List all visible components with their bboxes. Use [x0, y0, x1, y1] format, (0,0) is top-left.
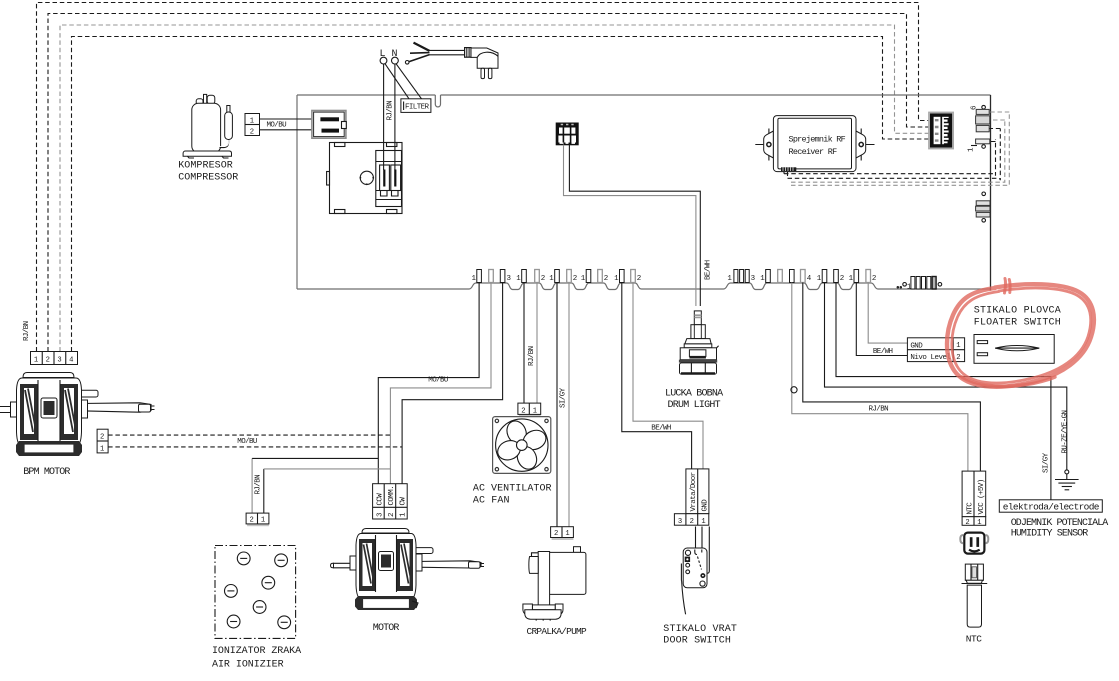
electrode box — [999, 500, 1102, 513]
MOTOR drawing — [331, 529, 485, 611]
svg-text:2: 2 — [388, 513, 396, 517]
svg-text:1: 1 — [250, 117, 254, 125]
wire frame net 2 (dashed loop pin2) — [48, 14, 930, 352]
wire L to relay — [383, 64, 385, 170]
svg-text:RU-ZE/YE-GN: RU-ZE/YE-GN — [1061, 410, 1069, 453]
svg-text:VCC (+5V): VCC (+5V) — [978, 479, 986, 514]
earth ground symbol — [1055, 470, 1079, 490]
svg-text:GND: GND — [702, 499, 710, 512]
wire frame net 4 (dashed loop pin4) — [72, 37, 930, 352]
board right edge terminal stack T2 — [976, 192, 990, 222]
pins group J3 (pump) — [549, 270, 577, 284]
svg-text:GND: GND — [910, 342, 923, 350]
svg-text:MO/BU: MO/BU — [237, 438, 257, 446]
svg-text:COMM.: COMM. — [388, 486, 396, 506]
connector X8 NTC / VCC(+5V) — [962, 471, 986, 527]
svg-text:BE/WH: BE/WH — [651, 425, 671, 433]
svg-text:1: 1 — [261, 517, 265, 525]
svg-text:DOOR SWITCH: DOOR SWITCH — [663, 636, 731, 647]
pins group J9 (floater switch) — [849, 270, 876, 284]
svg-text:ODJEMNIK POTENCIALA: ODJEMNIK POTENCIALA — [1011, 518, 1109, 529]
connector X2 motor (3 CCW / 2 COMM. / 1 CW) — [373, 484, 408, 519]
svg-text:STIKALO VRAT: STIKALO VRAT — [663, 624, 737, 635]
svg-text:AC FAN: AC FAN — [473, 495, 510, 506]
svg-text:2: 2 — [956, 354, 960, 362]
wire drum light (black) — [569, 145, 700, 307]
svg-text:Nivo Level: Nivo Level — [910, 354, 951, 362]
wire NTC sensor (gray to NTC pin2) — [792, 283, 968, 472]
door microswitch — [681, 527, 709, 615]
wire frame net 3 (gray dashed loop pin3) — [60, 25, 930, 352]
svg-text:2: 2 — [965, 519, 969, 527]
floater switch icon — [974, 335, 1054, 364]
svg-text:CCW: CCW — [377, 493, 385, 506]
svg-text:IONIZATOR ZRAKA: IONIZATOR ZRAKA — [212, 646, 301, 657]
svg-text:1: 1 — [956, 342, 960, 350]
connector X7 BPM 2/1 — [97, 429, 108, 453]
ionizer box — [215, 546, 296, 639]
wire drum light (gray) — [564, 145, 696, 307]
compressor icon — [183, 94, 232, 158]
wire frame net 1 (RJ/BN dashed loop pin1) — [37, 3, 930, 352]
svg-text:elektroda/electrode: elektroda/electrode — [1003, 502, 1100, 513]
svg-text:2: 2 — [46, 357, 50, 365]
svg-text:HUMIDITY SENSOR: HUMIDITY SENSOR — [1011, 528, 1089, 539]
mains plug — [465, 48, 498, 79]
svg-text:FLOATER SWITCH: FLOATER SWITCH — [974, 318, 1061, 329]
svg-text:RJ/BN: RJ/BN — [23, 321, 31, 341]
connector K4 on board (drum light feed) — [556, 123, 579, 146]
junction circle on NTC wire — [791, 387, 797, 393]
svg-text:STIKALO PLOVCA: STIKALO PLOVCA — [974, 306, 1061, 317]
wire N to filter — [396, 64, 421, 99]
svg-text:2: 2 — [554, 530, 558, 538]
wire floater GND — [868, 283, 907, 344]
svg-text:Sprejemnik RF: Sprejemnik RF — [789, 135, 846, 145]
dashed bus receiver to board edge terminals — [784, 112, 1009, 185]
board right edge terminal stack T1 — [968, 105, 990, 152]
svg-text:BE/WH: BE/WH — [705, 260, 713, 280]
board edge connector pins group J1 (1..3 motor) — [472, 270, 512, 284]
relay block K1 (small) — [312, 111, 346, 139]
svg-text:SI/GY: SI/GY — [1043, 452, 1051, 473]
svg-text:2: 2 — [690, 518, 694, 526]
BPM motor drawing — [0, 373, 155, 457]
svg-text:1: 1 — [34, 357, 38, 365]
connector X1 1-2-3-4 (left) — [31, 352, 78, 365]
wire fan 2 — [523, 283, 525, 404]
svg-text:BPM MOTOR: BPM MOTOR — [23, 467, 70, 478]
mains cable — [405, 43, 465, 65]
wire BPM 2 (dashed MO/BU) — [108, 434, 390, 436]
svg-text:3: 3 — [57, 357, 61, 365]
svg-text:MOTOR: MOTOR — [373, 623, 400, 634]
wire N to relay — [394, 64, 396, 170]
receiver RF module U1 — [755, 116, 874, 172]
svg-text:RJ/BN: RJ/BN — [869, 406, 889, 414]
wire fan 1 — [536, 283, 538, 404]
pins group J2 (fan) — [516, 270, 545, 284]
svg-text:DRUM LIGHT: DRUM LIGHT — [668, 400, 721, 411]
svg-text:KOMPRESOR: KOMPRESOR — [178, 161, 233, 172]
svg-text:1: 1 — [701, 518, 705, 526]
wire compressor to relay block pin1 — [260, 118, 321, 120]
NTC plug icon 1 — [960, 533, 988, 554]
wire motor COMM — [390, 283, 491, 484]
wire humidity SI/GY — [836, 283, 1051, 500]
svg-text:AC VENTILATOR: AC VENTILATOR — [473, 483, 552, 494]
drum light lamp — [679, 311, 719, 374]
svg-text:2: 2 — [604, 275, 608, 283]
wire door switch GND — [633, 283, 703, 469]
wire L to filter — [385, 64, 409, 99]
svg-text:Vrata/Door: Vrata/Door — [690, 472, 698, 511]
svg-text:BE/WH: BE/WH — [873, 348, 893, 356]
wire motor CW — [402, 283, 503, 484]
wire compressor to relay block pin2 — [260, 129, 321, 131]
connector X3 fan 2|1 — [518, 403, 541, 417]
svg-text:LUCKA BOBNA: LUCKA BOBNA — [665, 388, 723, 399]
NTC plug icon 2 + probe — [962, 564, 988, 627]
connector X5 door (Vrata/Door | GND | 3 2 1) — [674, 469, 709, 526]
pins group J7 (1..4 NTC) — [760, 270, 812, 284]
wire door switch Vrata/Door — [622, 283, 692, 469]
svg-text:3: 3 — [678, 518, 682, 526]
svg-text:4: 4 — [69, 357, 73, 365]
svg-text:RJ/BN: RJ/BN — [528, 346, 536, 366]
pins group J4 (unused) — [581, 270, 608, 284]
pins group J5 (door switch) — [614, 270, 641, 284]
connector X6 ionizer 2|1 — [246, 513, 269, 526]
svg-text:1: 1 — [100, 445, 104, 453]
svg-text:AIR IONIZIER: AIR IONIZIER — [212, 659, 284, 670]
red hand-drawn ellipse marking — [947, 279, 1094, 387]
svg-text:Receiver RF: Receiver RF — [789, 147, 838, 157]
wire ionizer 2 — [251, 458, 253, 513]
svg-text:FILTER: FILTER — [405, 104, 430, 112]
wire pump 1 — [568, 283, 570, 527]
pins group J10 (5 tight pins on edge) — [897, 277, 942, 292]
svg-text:2: 2 — [872, 275, 876, 283]
svg-text:1: 1 — [533, 407, 537, 415]
pins group J6 (3 tight pins) — [727, 270, 755, 284]
svg-text:RJ/BN: RJ/BN — [255, 475, 263, 495]
svg-text:2: 2 — [100, 433, 104, 441]
svg-text:2: 2 — [250, 517, 254, 525]
filter box — [401, 99, 431, 113]
AC fan icon — [489, 412, 555, 478]
svg-text:NTC: NTC — [967, 502, 975, 515]
pump icon — [523, 547, 586, 621]
wire VCC +5V (to NTC pin1) — [803, 283, 981, 472]
connector X4 pump 2|1 — [551, 527, 574, 540]
svg-text:2: 2 — [573, 275, 577, 283]
relay K2 (main square) — [327, 143, 402, 214]
connector 1/2 (compressor) — [245, 114, 260, 137]
svg-text:2: 2 — [840, 275, 844, 283]
wire motor CCW — [378, 283, 479, 484]
svg-text:NTC: NTC — [966, 634, 982, 645]
connector X9 floater GND/Nivo Level — [907, 338, 964, 362]
pins group J8 (humidity sensor) — [817, 270, 844, 284]
svg-text:COMPRESSOR: COMPRESSOR — [178, 172, 238, 183]
wire earth RU-ZE/YE-GN — [825, 283, 1067, 470]
wire BPM 1 (dashed MO/BU) — [108, 446, 402, 448]
svg-text:SI/GY: SI/GY — [559, 387, 567, 408]
wire ionizer 1 — [263, 469, 265, 513]
board outline (main PCB) — [297, 95, 991, 291]
svg-text:2: 2 — [521, 407, 525, 415]
frame wires into connector K3 — [929, 112, 953, 148]
svg-text:MO/BU: MO/BU — [267, 121, 287, 129]
svg-text:2: 2 — [250, 128, 254, 136]
svg-text:CW: CW — [400, 497, 408, 506]
svg-text:2: 2 — [541, 275, 545, 283]
svg-text:2: 2 — [637, 275, 641, 283]
svg-text:1: 1 — [977, 519, 981, 527]
svg-text:RJ/BN: RJ/BN — [386, 101, 394, 121]
svg-text:CRPALKA/PUMP: CRPALKA/PUMP — [527, 626, 587, 637]
svg-text:1: 1 — [565, 530, 569, 538]
wire pump 2 — [556, 283, 558, 527]
svg-text:MO/BU: MO/BU — [428, 376, 448, 384]
wire floater Nivo Level — [856, 283, 907, 356]
